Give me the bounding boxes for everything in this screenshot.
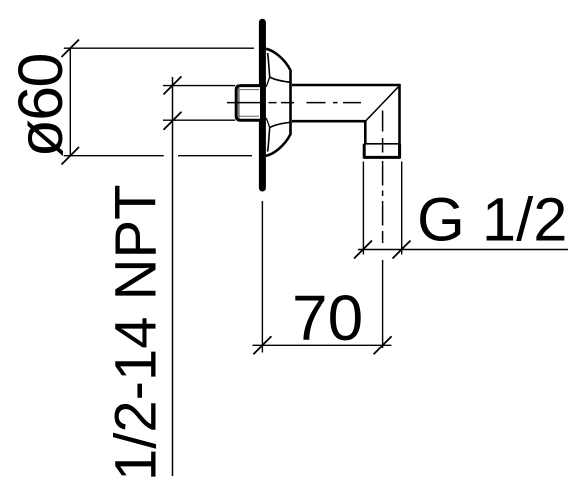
pipe bottom edge bbox=[292, 120, 365, 123]
elbow right edge bbox=[398, 84, 401, 158]
leader line NPT bbox=[172, 77, 174, 476]
extension line o60 bottom right bbox=[178, 155, 252, 157]
extension line G12 left bbox=[362, 162, 364, 255]
nut chamfer line bottom bbox=[238, 115, 259, 117]
tick o60 bottom bbox=[62, 147, 80, 165]
tick G12 right bbox=[393, 241, 411, 259]
extension line nut bottom bbox=[163, 119, 235, 121]
tick NPT top bbox=[164, 76, 182, 94]
centerline horizontal dashes bbox=[269, 102, 362, 104]
rosette inner edge bottom bbox=[266, 118, 270, 128]
union nut body bbox=[236, 86, 260, 121]
extension line 70 right bbox=[382, 260, 384, 348]
extension line o60 top bbox=[64, 47, 254, 49]
svg-text:1/2-14 NPT: 1/2-14 NPT bbox=[104, 184, 169, 481]
svg-text:ø60: ø60 bbox=[6, 54, 76, 157]
pipe top edge bbox=[292, 84, 401, 87]
nut inner face line bbox=[238, 88, 240, 119]
outlet thread top line bbox=[364, 143, 399, 145]
extension line 70 left bbox=[261, 201, 263, 353]
tick o60 top bbox=[62, 40, 80, 58]
svg-text:70: 70 bbox=[292, 282, 363, 354]
dimension line 70 bbox=[253, 344, 392, 346]
dimension line G12 bbox=[358, 249, 568, 251]
extension line G12 right bbox=[401, 162, 403, 255]
dimension line o60 bbox=[69, 48, 71, 156]
elbow miter line bbox=[366, 87, 399, 121]
rosette inner edge top bbox=[266, 77, 270, 87]
svg-text:G 1/2: G 1/2 bbox=[417, 186, 567, 255]
tick 70 left bbox=[253, 336, 271, 354]
extension line nut top bbox=[163, 85, 235, 87]
nut chamfer line top bbox=[238, 89, 259, 91]
rosette inner contour bottom bbox=[268, 122, 292, 151]
tick 70 right bbox=[374, 336, 392, 354]
vertical pipe left edge bbox=[364, 120, 367, 144]
centerline outlet axis dashes bbox=[382, 111, 384, 244]
extension line o60 bottom left bbox=[64, 155, 164, 157]
centerline horizontal solid across nut bbox=[227, 102, 261, 104]
tick NPT bottom bbox=[164, 112, 182, 130]
wall plate bbox=[259, 22, 266, 188]
rosette outer profile bbox=[266, 49, 291, 156]
tick G12 left bbox=[354, 241, 372, 259]
outlet thread body bbox=[364, 144, 399, 158]
rosette inner contour top bbox=[268, 53, 292, 82]
